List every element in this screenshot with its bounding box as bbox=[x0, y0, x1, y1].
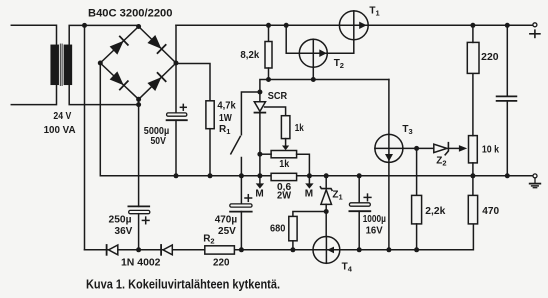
label + of C2 bbox=[142, 217, 149, 224]
resistor 470 bbox=[468, 176, 477, 224]
svg-text:220: 220 bbox=[213, 257, 230, 268]
svg-text:R2: R2 bbox=[203, 234, 214, 246]
node T3 emitter bottom bbox=[386, 247, 391, 252]
transistor T1 bbox=[339, 11, 368, 40]
resistor 0,6 2W in rail bbox=[271, 173, 297, 180]
svg-text:100 VA: 100 VA bbox=[44, 125, 76, 136]
diode bridge D-bottomright bbox=[147, 73, 165, 91]
svg-text:2,2k: 2,2k bbox=[425, 206, 445, 217]
wire T3 collector drop bbox=[388, 80, 390, 250]
resistor 220 top bbox=[467, 25, 479, 73]
transistor T3 bbox=[375, 134, 403, 162]
svg-text:T3: T3 bbox=[402, 124, 412, 136]
svg-text:Kuva 1. Kokeiluvirtalähteen ky: Kuva 1. Kokeiluvirtalähteen kytkentä. bbox=[86, 277, 280, 292]
node Z1 base junction bbox=[324, 209, 329, 214]
label + of C1 bbox=[180, 104, 186, 110]
svg-text:1k: 1k bbox=[279, 159, 289, 170]
wire R1 feed from plus corner bbox=[176, 64, 210, 101]
node R2 right bbox=[239, 247, 244, 252]
measuring point M right bbox=[305, 177, 313, 189]
node C4 top bbox=[357, 173, 362, 178]
diode D1 1N4002 bbox=[107, 245, 118, 255]
diode bridge D-bottomleft bbox=[109, 71, 127, 89]
svg-text:M: M bbox=[305, 188, 313, 199]
node pot left bbox=[257, 152, 262, 157]
node bridge left bbox=[98, 61, 103, 66]
wire AC1 drop bbox=[84, 25, 86, 249]
resistor 1k gate bbox=[281, 116, 290, 151]
node 2,2k top bbox=[414, 146, 419, 151]
svg-text:Z1: Z1 bbox=[332, 190, 342, 202]
svg-text:Z2: Z2 bbox=[436, 155, 446, 167]
svg-text:16V: 16V bbox=[366, 225, 383, 236]
svg-text:470µ: 470µ bbox=[215, 215, 238, 226]
svg-text:1k: 1k bbox=[295, 123, 304, 134]
capacitor C1 5000u 50V bbox=[167, 63, 187, 176]
node T2 base bbox=[311, 77, 316, 82]
svg-text:250µ: 250µ bbox=[109, 215, 132, 226]
resistor R1 4,7k 1W bbox=[206, 101, 214, 176]
node 2,2k bottom bbox=[414, 247, 419, 252]
node C2 bottom bbox=[136, 247, 141, 252]
svg-text:50V: 50V bbox=[151, 136, 167, 147]
svg-text:470: 470 bbox=[482, 206, 499, 217]
capacitor C2 250u 36V bbox=[128, 206, 149, 249]
svg-text:1N 4002: 1N 4002 bbox=[121, 257, 161, 268]
node 10k bottom rail bbox=[470, 173, 475, 178]
node R1 bottom bbox=[208, 173, 213, 178]
resistor 2,2k bbox=[412, 148, 422, 249]
wire SCR gate bbox=[265, 107, 286, 116]
node C5 bottom bbox=[505, 173, 510, 178]
potentiometer 1k bbox=[260, 151, 310, 176]
svg-text:M: M bbox=[255, 188, 263, 199]
bridge rectifier B40C 3200/2200 diamond bbox=[100, 27, 176, 100]
wire top positive rail bbox=[176, 24, 533, 26]
svg-text:5000µ: 5000µ bbox=[144, 126, 170, 137]
wire base bus y79 bbox=[260, 80, 389, 93]
node C4 bottom bbox=[357, 247, 362, 252]
capacitor C3 470u 25V bbox=[230, 176, 252, 250]
diode bridge D-topright bbox=[147, 35, 165, 53]
svg-text:680: 680 bbox=[270, 224, 286, 235]
svg-text:1W: 1W bbox=[219, 113, 232, 124]
svg-text:10 k: 10 k bbox=[482, 144, 500, 155]
terminal ground bbox=[530, 174, 541, 188]
zener Z1 bbox=[320, 176, 332, 237]
transistor T4 bbox=[313, 237, 340, 264]
diode D2 1N4002 bbox=[161, 245, 172, 255]
svg-text:1000µ: 1000µ bbox=[363, 214, 386, 225]
svg-text:220: 220 bbox=[481, 52, 499, 63]
wire mains top bbox=[11, 25, 56, 45]
capacitor C5 output bbox=[497, 25, 517, 176]
svg-text:T2: T2 bbox=[334, 58, 344, 70]
node T2 feed top bbox=[284, 23, 289, 28]
node C5 top bbox=[505, 23, 510, 28]
transformer TR1 bbox=[51, 44, 71, 86]
capacitor C4 1000u 16V bbox=[349, 176, 370, 250]
wire secondary top to bridge bbox=[69, 25, 138, 45]
svg-text:SCR: SCR bbox=[268, 91, 288, 102]
node 8,2k bottom bbox=[266, 77, 271, 82]
node Z1 rail bbox=[324, 173, 329, 178]
node 8,2k top bbox=[266, 23, 271, 28]
svg-text:R1: R1 bbox=[219, 124, 230, 136]
node AC1 junction bbox=[82, 23, 87, 28]
svg-text:25V: 25V bbox=[218, 226, 236, 237]
wire secondary bottom bbox=[69, 84, 138, 104]
potentiometer 10k bbox=[469, 73, 478, 175]
switch S1 bbox=[231, 92, 260, 176]
svg-text:24 V: 24 V bbox=[53, 111, 71, 122]
measuring point M left bbox=[256, 177, 264, 189]
wire bridge plus up to top rail bbox=[175, 25, 177, 63]
wire T2 collector to T1 base bbox=[327, 40, 354, 54]
zener Z2 bbox=[434, 143, 460, 155]
node bridge bottom bbox=[136, 97, 141, 102]
svg-text:T4: T4 bbox=[342, 262, 353, 274]
svg-text:B40C 3200/2200: B40C 3200/2200 bbox=[88, 7, 173, 19]
node C1 top rail bbox=[174, 173, 179, 178]
svg-text:2W: 2W bbox=[277, 191, 292, 202]
node bridge top bbox=[136, 24, 141, 29]
wire mains bottom bbox=[11, 84, 56, 104]
wire bottom negative bus bbox=[85, 224, 474, 250]
node 220 top rail bbox=[470, 23, 475, 28]
svg-text:36V: 36V bbox=[115, 226, 133, 237]
thyristor SCR bbox=[254, 90, 265, 176]
wire T3 base to Z2 bbox=[403, 147, 434, 149]
diode bridge D-topleft bbox=[109, 36, 127, 54]
label + of C4 bbox=[364, 194, 371, 201]
svg-text:4,7k: 4,7k bbox=[217, 101, 236, 112]
svg-text:8,2k: 8,2k bbox=[240, 50, 259, 61]
wire AC2 drop to C2 bbox=[138, 99, 140, 206]
node 680 bottom bbox=[290, 247, 295, 252]
resistor R3 8,2k bbox=[265, 25, 272, 79]
node switch rail bbox=[239, 173, 244, 178]
label + output bbox=[530, 30, 540, 37]
node pot right rail bbox=[307, 173, 312, 178]
svg-text:T1: T1 bbox=[369, 6, 379, 18]
resistor R2 220 bbox=[205, 246, 235, 254]
node SCR cathode rail bbox=[257, 173, 262, 178]
wire bridge minus drop and negative rail bbox=[100, 63, 533, 176]
resistor 680 bbox=[289, 212, 326, 250]
wire T2 left feed bbox=[286, 25, 299, 53]
wiper arrow to 10k bbox=[459, 145, 467, 152]
terminal output plus bbox=[533, 23, 537, 27]
node bridge right bbox=[174, 61, 179, 66]
label + of C3 bbox=[245, 195, 252, 202]
node secondary bottom junction bbox=[136, 102, 141, 107]
transistor T2 bbox=[299, 39, 327, 79]
